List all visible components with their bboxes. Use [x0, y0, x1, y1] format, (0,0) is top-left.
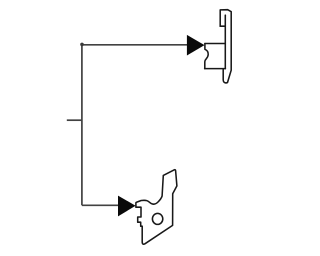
arrowhead to bottom part: [118, 196, 136, 217]
clip part panel left edge: [224, 15, 226, 69]
clip part arm bottom edge: [205, 68, 226, 70]
clip part (top right) outer outline: [220, 10, 231, 83]
clip part hook step: [220, 25, 225, 27]
bracket part (bottom) outline: [136, 170, 177, 245]
wire vertical leader line: [81, 45, 83, 206]
arrowhead to top part: [187, 35, 205, 56]
clip part arm wavy left edge: [205, 44, 208, 69]
wire tick mark: [67, 119, 82, 121]
clip part arm top edge: [205, 43, 225, 45]
bracket hole: [152, 213, 162, 224]
wire top horizontal leader: [82, 44, 188, 46]
node junction dot at top corner: [80, 43, 84, 47]
wire bottom horizontal leader: [82, 204, 119, 206]
